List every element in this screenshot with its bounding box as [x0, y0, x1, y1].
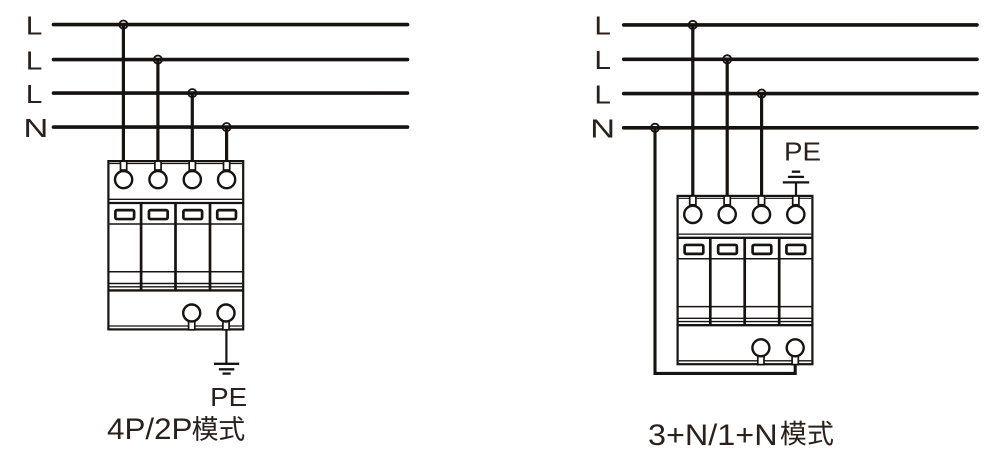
wire: right bus line 3 (L) [624, 92, 977, 96]
wire: left drop wire 1 [122, 25, 125, 162]
SPD SPD1 bottom terminal stub 1 [189, 321, 195, 330]
SPD SPD2 module divider 3 [778, 238, 781, 325]
SPD SPD2 top terminal stub 4 [793, 196, 799, 205]
SPD SPD2 line under windows [678, 258, 813, 260]
wire: left bus line 1 (L) [54, 23, 408, 27]
SPD SPD2 top terminal circle 3 [753, 206, 770, 223]
SPD SPD1 lower band line 2 [108, 286, 243, 288]
SPD SPD2 bottom inner line [679, 360, 812, 362]
SPD SPD1 indicator window 2 [149, 210, 168, 219]
wire: right drop wire 2 [726, 59, 729, 197]
wire: left PE wire [225, 330, 227, 364]
ground: left earth bar 1 [214, 363, 239, 365]
SPD SPD1 bottom terminal stub 2 [223, 321, 229, 330]
SPD SPD1 top terminal stub 1 [121, 161, 127, 170]
wire: left bus line 4 (N) [54, 125, 408, 129]
ground: left earth bar 2 [219, 368, 234, 370]
caption glyph SHI (left) [220, 416, 245, 441]
SPD SPD1 module bottom line [108, 271, 243, 273]
SPD SPD1 lower band thick line [108, 289, 243, 291]
SPD SPD2 lower band thick line [678, 324, 813, 326]
wire: right N wire (down, across, up) [655, 128, 795, 374]
SPD SPD1 terminal separator thin line [110, 198, 243, 200]
caption glyph MO (left) [192, 416, 217, 441]
wire: left drop wire 3 [191, 93, 194, 162]
SPD SPD1 top terminal circle 1 [115, 171, 132, 188]
wire: right bus line 4 (N) [624, 126, 977, 130]
SPD SPD2 bottom terminal stub 1 [758, 356, 764, 365]
node: left junction 3 [188, 89, 196, 97]
SPD SPD1 lower band line 1 [108, 283, 243, 285]
svg-text:L: L [26, 10, 43, 40]
SPD SPD1 top terminal circle 2 [149, 171, 166, 188]
svg-text:L: L [594, 79, 611, 109]
SPD SPD1 top terminal stub 3 [189, 161, 195, 170]
svg-text:L: L [594, 11, 611, 41]
node: right N junction [651, 124, 659, 132]
SPD SPD1 body outline [108, 161, 243, 329]
SPD SPD2 top terminal circle 2 [719, 206, 736, 223]
SPD SPD1 top terminal circle 4 [218, 171, 235, 188]
svg-text:L: L [26, 45, 43, 75]
node: right junction 3 [758, 90, 766, 98]
SPD SPD1 line under windows [108, 223, 243, 225]
SPD SPD2 top terminal stub 1 [690, 196, 696, 205]
SPD SPD2 bottom terminal circle 2 [787, 339, 804, 356]
ground: right earth bar middle [788, 176, 804, 178]
wire: left drop wire 4 [225, 127, 228, 162]
SPD SPD1 top terminal stub 4 [224, 161, 230, 170]
SPD SPD1 top terminal stub 2 [155, 161, 161, 170]
caption glyph MO (right) [781, 421, 806, 446]
svg-text:L: L [26, 79, 43, 109]
SPD SPD2 indicator window 4 [786, 245, 805, 254]
SPD SPD2 indicator window 2 [718, 245, 737, 254]
ground: right earth bar small (top) [792, 171, 800, 173]
SPD SPD2 body outline [678, 196, 813, 364]
node: left junction 2 [154, 56, 162, 64]
SPD SPD1 module divider 2 [174, 203, 177, 290]
wire: right bus line 2 (L) [624, 57, 977, 61]
svg-text:N: N [23, 113, 48, 143]
SPD SPD2 top terminal circle 4 [787, 206, 804, 223]
node: left junction 1 [119, 21, 127, 29]
SPD SPD2 top terminal stub 2 [724, 196, 730, 205]
SPD SPD1 bottom terminal circle 1 [183, 305, 200, 322]
node: right junction 1 [689, 21, 697, 29]
SPD SPD2 top cap line [679, 197, 812, 199]
SPD SPD2 terminal separator thin line [679, 233, 812, 235]
wire: right PE stub wire [795, 182, 797, 196]
SPD SPD2 lower band line 1 [678, 317, 813, 319]
SPD SPD2 lower band line 2 [678, 321, 813, 323]
SPD SPD2 module bottom line [678, 306, 813, 308]
SPD SPD1 top cap line [110, 163, 243, 165]
SPD SPD2 terminal separator thick line [678, 237, 813, 239]
SPD SPD1 indicator window 1 [115, 210, 134, 219]
SPD SPD2 bottom terminal circle 1 [752, 339, 769, 356]
svg-text:3+N/1+N: 3+N/1+N [648, 419, 778, 449]
caption glyph SHI (right) [808, 421, 833, 446]
SPD SPD1 bottom inner line [110, 325, 243, 327]
SPD SPD1 top terminal circle 3 [184, 171, 201, 188]
wire: right drop wire 3 [760, 94, 763, 197]
svg-text:PE: PE [784, 138, 821, 166]
ground: right earth bar wide (bottom) [783, 181, 809, 183]
ground: left earth bar 3 [223, 372, 231, 374]
SPD SPD2 module divider 2 [743, 238, 746, 325]
svg-text:PE: PE [210, 384, 247, 412]
svg-text:N: N [590, 114, 615, 144]
SPD SPD2 module divider 1 [709, 238, 712, 325]
SPD SPD1 terminal separator thick line [108, 202, 243, 204]
SPD SPD2 top terminal stub 3 [758, 196, 764, 205]
node: left junction 4 [223, 123, 231, 131]
wire: left bus line 3 (L) [54, 91, 408, 95]
SPD SPD1 indicator window 3 [183, 210, 202, 219]
SPD SPD1 bottom terminal circle 2 [218, 305, 235, 322]
SPD SPD2 indicator window 1 [685, 245, 704, 254]
wire: right drop wire 1 [691, 25, 694, 197]
wire: left bus line 2 (L) [54, 58, 408, 62]
SPD SPD1 module divider 3 [209, 203, 212, 290]
SPD SPD2 top terminal circle 1 [684, 206, 701, 223]
svg-text:4P/2P: 4P/2P [107, 413, 193, 446]
node: right junction 2 [723, 55, 731, 63]
SPD SPD1 module divider 1 [140, 203, 143, 290]
svg-text:L: L [594, 45, 611, 75]
wire: left drop wire 2 [156, 60, 159, 162]
SPD SPD2 indicator window 3 [753, 245, 772, 254]
wire: right bus line 1 (L) [624, 23, 977, 27]
SPD SPD2 bottom terminal stub 2 [792, 356, 798, 365]
SPD SPD1 indicator window 4 [217, 210, 236, 219]
